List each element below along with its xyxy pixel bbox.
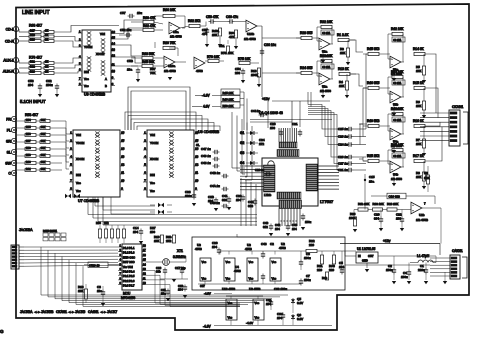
svg-text:1K: 1K <box>45 70 48 74</box>
svg-text:Vss: Vss <box>228 316 233 320</box>
svg-text:G1: G1 <box>240 131 244 135</box>
svg-text:R59: R59 <box>26 154 31 157</box>
svg-text:+12v: +12v <box>262 97 270 101</box>
svg-text:1/2 4558: 1/2 4558 <box>391 177 402 181</box>
svg-text:R19: R19 <box>30 38 35 42</box>
svg-text:272: 272 <box>259 142 264 146</box>
svg-text:P2.1 P2.5: P2.1 P2.5 <box>123 274 135 278</box>
svg-text:103: 103 <box>270 126 275 130</box>
svg-text:YCOM: YCOM <box>84 45 93 49</box>
svg-text:16: 16 <box>121 130 125 134</box>
svg-text:6.8V: 6.8V <box>297 301 303 305</box>
svg-text:Vee: Vee <box>84 77 89 81</box>
svg-text:R50 12K: R50 12K <box>223 104 234 108</box>
svg-text:47K: 47K <box>229 35 234 39</box>
svg-text:50K: 50K <box>41 147 46 150</box>
svg-text:AUX-L: AUX-L <box>3 58 14 62</box>
svg-text:10K: 10K <box>416 104 421 108</box>
svg-text:Vss: Vss <box>226 277 231 281</box>
svg-text:R17 1K: R17 1K <box>413 154 425 158</box>
svg-text:R62 2K2: R62 2K2 <box>188 19 201 23</box>
svg-text:333: 333 <box>248 204 253 208</box>
svg-text:INH: INH <box>84 70 89 74</box>
svg-text:R23 10K: R23 10K <box>320 54 333 58</box>
svg-text:U6 CD4053B: U6 CD4053B <box>198 130 220 134</box>
svg-text:R21: R21 <box>30 60 35 64</box>
svg-text:GND: GND <box>362 259 368 263</box>
svg-text:C5B: C5B <box>127 59 133 63</box>
svg-text:100u: 100u <box>305 220 312 224</box>
svg-text:P2.2 P2.6: P2.2 P2.6 <box>123 279 135 283</box>
svg-text:R33 18K: R33 18K <box>373 202 384 206</box>
svg-text:1K: 1K <box>45 29 48 33</box>
svg-text:Vss: Vss <box>76 189 81 193</box>
svg-text:R22: R22 <box>30 65 35 69</box>
svg-text:13: 13 <box>112 47 116 51</box>
svg-text:Vcc: Vcc <box>228 301 233 305</box>
svg-text:U8 4558: U8 4558 <box>249 287 261 291</box>
svg-text:1/2 4558: 1/2 4558 <box>244 37 256 41</box>
svg-text:11: 11 <box>195 170 198 174</box>
svg-text:R25 10K: R25 10K <box>391 143 404 147</box>
svg-text:104: 104 <box>133 230 138 234</box>
svg-text:YCOM: YCOM <box>150 141 159 145</box>
svg-text:SW: SW <box>5 161 11 165</box>
svg-text:R55: R55 <box>26 126 31 129</box>
svg-text:C4B 1u: C4B 1u <box>210 171 220 175</box>
svg-text:CD-L: CD-L <box>6 27 14 31</box>
svg-text:75K: 75K <box>150 71 155 75</box>
svg-text:U7 CD4653B: U7 CD4653B <box>78 199 100 203</box>
svg-text:50K: 50K <box>41 126 46 129</box>
svg-text:10a: 10a <box>369 180 374 184</box>
svg-text:R23: R23 <box>30 70 35 74</box>
svg-text:1K: 1K <box>45 33 48 37</box>
svg-text:C52 10u: C52 10u <box>120 28 132 32</box>
svg-text:XCOM: XCOM <box>96 52 105 56</box>
svg-text:R32 10K: R32 10K <box>320 20 333 24</box>
svg-text:R53 4K7: R53 4K7 <box>25 113 38 117</box>
svg-text:33b: 33b <box>156 270 161 274</box>
svg-text:Vss: Vss <box>84 84 89 88</box>
svg-text:B: B <box>105 84 107 88</box>
svg-text:Vcc: Vcc <box>272 260 277 264</box>
svg-text:R42 10K: R42 10K <box>391 27 404 31</box>
svg-text:14: 14 <box>121 146 125 150</box>
svg-text:R45 9K3: R45 9K3 <box>367 47 380 51</box>
svg-text:R80 75K: R80 75K <box>163 41 176 45</box>
svg-text:1/2 4558: 1/2 4558 <box>320 89 331 93</box>
svg-text:JACK6B: JACK6B <box>41 310 54 314</box>
svg-text:IN: IN <box>358 254 361 258</box>
svg-text:XT1: XT1 <box>177 249 183 253</box>
svg-text:3.58MHz: 3.58MHz <box>173 255 186 259</box>
svg-text:U10 4558: U10 4558 <box>222 287 235 291</box>
svg-text:10u: 10u <box>137 11 142 15</box>
svg-text:C23 1u: C23 1u <box>255 168 264 172</box>
svg-text:R65 50K: R65 50K <box>142 60 155 64</box>
svg-text:R68 4K7: R68 4K7 <box>29 24 42 28</box>
svg-text:100u: 100u <box>304 256 311 260</box>
svg-text:13K: 13K <box>340 51 345 55</box>
svg-text:R73: R73 <box>221 51 227 55</box>
svg-text:15: 15 <box>112 35 116 39</box>
svg-text:SL: SL <box>7 150 11 154</box>
svg-text:Vee: Vee <box>150 181 155 185</box>
svg-text:12: 12 <box>121 162 125 166</box>
svg-text:C10 823: C10 823 <box>389 195 401 199</box>
svg-text:Vcc: Vcc <box>202 260 207 264</box>
svg-text:G2: G2 <box>240 141 244 145</box>
svg-text:P1.0 P1.1: P1.0 P1.1 <box>123 246 135 250</box>
svg-text:R70 18K: R70 18K <box>207 55 220 59</box>
svg-text:C60 47u: C60 47u <box>226 15 238 19</box>
svg-text:R61: R61 <box>26 168 31 171</box>
svg-text:CKAN1: CKAN1 <box>452 105 463 109</box>
svg-text:C61: C61 <box>219 44 225 48</box>
svg-text:R66 20K: R66 20K <box>163 8 176 12</box>
svg-text:220: 220 <box>317 268 322 272</box>
svg-text:10: 10 <box>195 178 199 182</box>
svg-text:Vss Vdd: Vss Vdd <box>123 265 133 269</box>
svg-text:C8 121: C8 121 <box>322 66 331 69</box>
svg-text:R57: R57 <box>26 140 31 143</box>
svg-text:CA6N1: CA6N1 <box>88 310 99 314</box>
svg-text:U1 LM78L05: U1 LM78L05 <box>357 247 375 251</box>
svg-text:C49 1u: C49 1u <box>201 154 211 158</box>
svg-text:CKAN1: CKAN1 <box>56 310 67 314</box>
svg-text:R56: R56 <box>26 133 31 136</box>
svg-text:R1 2.1K: R1 2.1K <box>337 33 349 37</box>
svg-text:10: 10 <box>121 178 125 182</box>
svg-text:4558: 4558 <box>279 246 286 250</box>
svg-text:Vss: Vss <box>272 277 277 281</box>
svg-text:-4.8V: -4.8V <box>203 325 211 329</box>
svg-text:P2.0 P2.4: P2.0 P2.4 <box>123 270 135 274</box>
svg-text:C8 121: C8 121 <box>393 119 402 122</box>
svg-text:Vee: Vee <box>76 181 81 185</box>
svg-text:Vdd: Vdd <box>150 133 155 137</box>
svg-text:LINE INPUT: LINE INPUT <box>22 10 50 16</box>
svg-text:4558: 4558 <box>234 269 241 273</box>
svg-text:MPD6156: MPD6156 <box>121 296 135 300</box>
svg-text:U2b: U2b <box>419 213 425 217</box>
svg-text:13: 13 <box>195 154 199 158</box>
svg-text:R54: R54 <box>26 119 31 122</box>
svg-text:104: 104 <box>292 227 297 231</box>
svg-text:L1 47μH: L1 47μH <box>417 254 430 258</box>
svg-text:XCOM: XCOM <box>76 157 85 161</box>
svg-text:15: 15 <box>195 138 199 142</box>
svg-text:C8 121: C8 121 <box>393 82 402 85</box>
svg-text:100u: 100u <box>304 278 311 282</box>
svg-text:R75 18K: R75 18K <box>238 57 251 61</box>
svg-text:104: 104 <box>208 199 213 203</box>
svg-text:220: 220 <box>309 243 314 247</box>
svg-text:50K: 50K <box>41 161 46 164</box>
svg-text:Vcc: Vcc <box>255 301 260 305</box>
svg-text:100K: 100K <box>349 216 356 220</box>
svg-text:R70 4K7: R70 4K7 <box>29 56 42 60</box>
svg-text:100u: 100u <box>401 275 408 279</box>
svg-text:R24 9K5: R24 9K5 <box>300 66 313 70</box>
svg-text:11: 11 <box>112 62 115 66</box>
svg-text:12: 12 <box>195 162 199 166</box>
svg-text:U10b: U10b <box>247 32 255 36</box>
svg-text:1K: 1K <box>45 38 48 42</box>
svg-text:Q1-Q4 16A9 48: Q1-Q4 16A9 48 <box>259 111 283 115</box>
svg-text:C48 1u: C48 1u <box>201 161 211 165</box>
svg-text:C36 10u: C36 10u <box>264 43 276 47</box>
svg-text:L710b: L710b <box>264 193 272 197</box>
svg-text:Vss: Vss <box>255 316 260 320</box>
svg-text:C37: C37 <box>200 284 205 288</box>
svg-text:C21: C21 <box>292 122 298 126</box>
svg-text:15: 15 <box>121 138 125 142</box>
svg-text:100K: 100K <box>251 73 258 77</box>
svg-text:FR: FR <box>6 117 11 121</box>
svg-text:50K: 50K <box>41 168 46 171</box>
svg-text:CD-R: CD-R <box>5 39 14 43</box>
svg-text:C8 121: C8 121 <box>393 155 402 158</box>
svg-text:C57: C57 <box>120 11 126 15</box>
svg-text:C15: C15 <box>369 175 375 179</box>
svg-text:14: 14 <box>112 41 116 45</box>
svg-text:C59 47K: C59 47K <box>206 15 219 19</box>
svg-text:50K: 50K <box>41 154 46 157</box>
svg-text:R41 10K: R41 10K <box>391 107 404 111</box>
svg-text:R58: R58 <box>26 147 31 150</box>
svg-text:104: 104 <box>275 227 280 231</box>
svg-text:INT0 OSC: INT0 OSC <box>123 255 135 259</box>
svg-text:Vdd: Vdd <box>76 133 81 137</box>
svg-text:SR: SR <box>6 139 11 143</box>
svg-text:INH: INH <box>76 173 81 177</box>
svg-text:R14 9K: R14 9K <box>413 47 425 51</box>
svg-text:R48 10K: R48 10K <box>223 97 234 101</box>
svg-text:XCOM: XCOM <box>150 157 159 161</box>
svg-text:19K: 19K <box>78 289 83 293</box>
svg-text:CAKN1: CAKN1 <box>452 249 463 253</box>
svg-text:YCOM: YCOM <box>76 141 85 145</box>
svg-text:4.8V: 4.8V <box>203 105 210 109</box>
svg-text:2K2: 2K2 <box>166 239 172 243</box>
svg-text:AUX-R: AUX-R <box>3 69 15 73</box>
svg-text:1K: 1K <box>45 65 48 69</box>
svg-text:R45 10K: R45 10K <box>223 91 234 95</box>
svg-text:10K: 10K <box>154 239 159 243</box>
svg-text:SL: SL <box>196 143 200 147</box>
svg-text:12: 12 <box>112 53 116 57</box>
svg-text:104: 104 <box>236 198 241 202</box>
svg-text:1/2 4558: 1/2 4558 <box>170 35 182 39</box>
svg-text:R60: R60 <box>26 161 31 164</box>
svg-text:FL: FL <box>7 128 11 132</box>
svg-text:364: 364 <box>374 217 379 221</box>
svg-text:Vss: Vss <box>249 277 254 281</box>
svg-text:◄-►: ◄-► <box>68 310 75 314</box>
svg-text:C47 1u: C47 1u <box>201 147 211 151</box>
svg-text:INH: INH <box>150 173 155 177</box>
svg-text:15K: 15K <box>228 51 233 55</box>
svg-text:R40 5K8: R40 5K8 <box>367 119 380 123</box>
svg-text:◄-►: ◄-► <box>100 310 107 314</box>
svg-text:◄-►: ◄-► <box>34 310 41 314</box>
svg-text:R0b 18K: R0b 18K <box>358 202 369 206</box>
svg-text:Vdd: Vdd <box>100 32 105 36</box>
svg-text:R15 1K: R15 1K <box>413 81 425 85</box>
svg-text:R60 47K: R60 47K <box>143 16 156 20</box>
svg-text:C8 121: C8 121 <box>322 32 331 35</box>
svg-text:13: 13 <box>121 154 125 158</box>
svg-text:R44 10K: R44 10K <box>391 70 404 74</box>
svg-text:G: G <box>0 329 4 334</box>
svg-text:104: 104 <box>28 83 33 87</box>
svg-text:5.1CH INPUT: 5.1CH INPUT <box>20 99 46 104</box>
svg-text:10a: 10a <box>127 68 132 72</box>
svg-text:R36: R36 <box>96 221 101 225</box>
svg-text:220: 220 <box>329 268 334 272</box>
svg-text:104: 104 <box>212 245 217 249</box>
svg-text:JACK6A: JACK6A <box>20 310 33 314</box>
svg-text:100: 100 <box>150 230 155 234</box>
svg-text:10K: 10K <box>416 142 421 146</box>
svg-text:4558: 4558 <box>196 69 203 73</box>
svg-text:C63 100u: C63 100u <box>274 287 287 291</box>
svg-text:50K: 50K <box>41 140 46 143</box>
svg-text:LT7537: LT7537 <box>320 199 334 204</box>
svg-text:R29 18K: R29 18K <box>387 202 398 206</box>
svg-text:Vss: Vss <box>150 189 155 193</box>
svg-text:4558: 4558 <box>245 247 252 251</box>
svg-text:C8 121: C8 121 <box>393 39 402 42</box>
svg-text:U9 CD4052B: U9 CD4052B <box>84 93 106 97</box>
svg-text:OUT: OUT <box>368 254 374 258</box>
svg-text:U8a: U8a <box>173 30 179 34</box>
svg-text:10: 10 <box>112 69 116 73</box>
svg-text:R62 47K: R62 47K <box>143 24 156 28</box>
svg-text:RST OSC: RST OSC <box>123 260 135 264</box>
svg-text:16: 16 <box>112 30 116 34</box>
svg-text:C2: C2 <box>270 242 274 246</box>
svg-text:C520 10: C520 10 <box>89 263 100 267</box>
svg-text:2K2: 2K2 <box>104 221 109 225</box>
svg-text:-4.8V: -4.8V <box>204 292 211 296</box>
svg-text:1/2 455B: 1/2 455B <box>416 218 428 222</box>
svg-text:-4.8V: -4.8V <box>246 321 253 325</box>
svg-text:C4A 1u: C4A 1u <box>210 184 220 188</box>
svg-text:R13 1K: R13 1K <box>338 67 350 71</box>
svg-text:11: 11 <box>121 170 124 174</box>
svg-text:R4b: R4b <box>322 276 328 280</box>
svg-text:R0W0 R0W1: R0W0 R0W1 <box>43 230 58 233</box>
svg-text:4558: 4558 <box>195 247 202 251</box>
svg-text:10K: 10K <box>212 33 217 37</box>
svg-text:Vcc: Vcc <box>249 260 254 264</box>
svg-text:1/2 4558: 1/2 4558 <box>164 69 176 73</box>
svg-text:P2.3 P2.7: P2.3 P2.7 <box>123 284 135 288</box>
svg-text:1K: 1K <box>45 60 48 64</box>
svg-text:R63 50K: R63 50K <box>142 52 155 56</box>
svg-text:100u: 100u <box>185 194 192 198</box>
svg-text:P1.2 P1.3: P1.2 P1.3 <box>123 251 135 255</box>
svg-text:50K: 50K <box>41 133 46 136</box>
svg-text:+12v: +12v <box>383 239 391 243</box>
svg-text:312: 312 <box>263 225 268 229</box>
svg-text:R18: R18 <box>30 33 35 37</box>
svg-text:JACK7: JACK7 <box>107 310 117 314</box>
svg-text:R17: R17 <box>30 29 35 33</box>
svg-text:10K: 10K <box>416 175 421 179</box>
svg-text:G4: G4 <box>240 161 244 165</box>
svg-text:JACK6A: JACK6A <box>19 228 33 232</box>
svg-text:Vcc: Vcc <box>226 260 231 264</box>
svg-text:13K: 13K <box>339 84 344 88</box>
svg-text:100u: 100u <box>46 83 53 87</box>
svg-text:10K: 10K <box>416 69 421 73</box>
svg-text:R8: R8 <box>424 171 428 175</box>
svg-text:R28 9K5: R28 9K5 <box>300 31 313 35</box>
svg-text:R46 9K5: R46 9K5 <box>367 81 380 85</box>
svg-text:6.8V: 6.8V <box>297 317 303 321</box>
svg-text:R25 2K2: R25 2K2 <box>367 154 380 158</box>
svg-text:U10a: U10a <box>168 64 176 68</box>
svg-text:Vss: Vss <box>202 277 207 281</box>
svg-text:C: C <box>8 171 11 175</box>
svg-text:333: 333 <box>222 198 227 202</box>
svg-text:203: 203 <box>235 71 240 75</box>
svg-text:104: 104 <box>339 265 344 269</box>
svg-text:14: 14 <box>195 146 199 150</box>
svg-text:-4.8V: -4.8V <box>202 94 210 98</box>
svg-text:JACK6: JACK6 <box>75 310 85 314</box>
svg-text:A: A <box>105 77 107 81</box>
svg-text:G3: G3 <box>240 151 244 155</box>
svg-text:50K: 50K <box>41 119 46 122</box>
svg-text:C48: C48 <box>261 242 267 246</box>
svg-text:104: 104 <box>178 288 183 292</box>
